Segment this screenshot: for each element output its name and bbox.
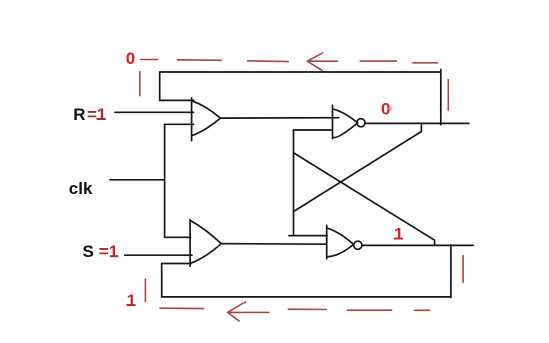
- svg-text:R: R: [73, 105, 85, 124]
- red dash top 2: [177, 59, 221, 62]
- svg-text:clk: clk: [69, 179, 93, 198]
- bubble U3: [357, 119, 365, 127]
- red tick bottom right: [462, 255, 464, 282]
- wire S input: [125, 254, 192, 256]
- stray pink dot: [389, 107, 393, 111]
- wire feedback top-left vertical: [159, 72, 161, 100]
- wire feedback top right vertical: [440, 70, 442, 125]
- wire R input: [115, 111, 194, 113]
- nor-gate U4: [327, 225, 354, 259]
- wire feedback bottom into AND2: [162, 263, 191, 265]
- and-gate U1: [192, 98, 221, 141]
- wire feedback into AND1: [160, 99, 194, 101]
- wire cross vertical: [293, 130, 295, 236]
- red dash bottom C: [347, 309, 391, 311]
- red arrow bottom: [228, 302, 269, 321]
- svg-text:1: 1: [394, 225, 403, 244]
- red dash bottom D: [415, 309, 430, 311]
- red dash top 3: [248, 60, 289, 63]
- red dash top 5: [413, 62, 438, 64]
- nor-gate U3: [333, 105, 358, 139]
- red arrow top: [307, 53, 337, 70]
- wire Q output: [365, 122, 469, 124]
- svg-text:S: S: [83, 242, 94, 261]
- svg-text:=1: =1: [99, 242, 118, 261]
- wire NOR2 upper input: [289, 235, 327, 237]
- wire clk to AND2: [165, 236, 191, 238]
- wire AND1 output to NOR1: [220, 117, 338, 119]
- bubble U4: [354, 241, 362, 249]
- wire feedback bottom-left vertical: [161, 264, 163, 297]
- wire feedback bottom right vertical: [450, 245, 452, 298]
- red tick bottom left: [144, 279, 146, 302]
- wire clk vertical: [164, 124, 166, 237]
- red dash top 4: [360, 60, 396, 62]
- red tick below 0: [139, 72, 141, 96]
- wire feedback top horizontal: [160, 71, 441, 73]
- svg-text:0: 0: [126, 49, 135, 68]
- wire Qbar output: [362, 244, 473, 246]
- svg-text:=1: =1: [87, 105, 106, 124]
- wire feedback bottom horizontal: [162, 296, 451, 298]
- wire AND2 output to NOR2: [221, 243, 325, 246]
- wire NOR1 lower input: [294, 129, 333, 131]
- svg-text:1: 1: [127, 291, 136, 310]
- red dash bottom A: [160, 307, 204, 309]
- red dash bottom B: [288, 308, 326, 310]
- and-gate U2: [190, 220, 221, 267]
- wire clk to AND1: [165, 123, 194, 125]
- red dash top 1: [141, 59, 158, 61]
- wire cross diagonal to Qbar: [294, 153, 435, 245]
- wire cross diagonal from Q: [294, 125, 422, 212]
- wire clk input: [110, 179, 165, 181]
- red tick top right: [447, 80, 449, 111]
